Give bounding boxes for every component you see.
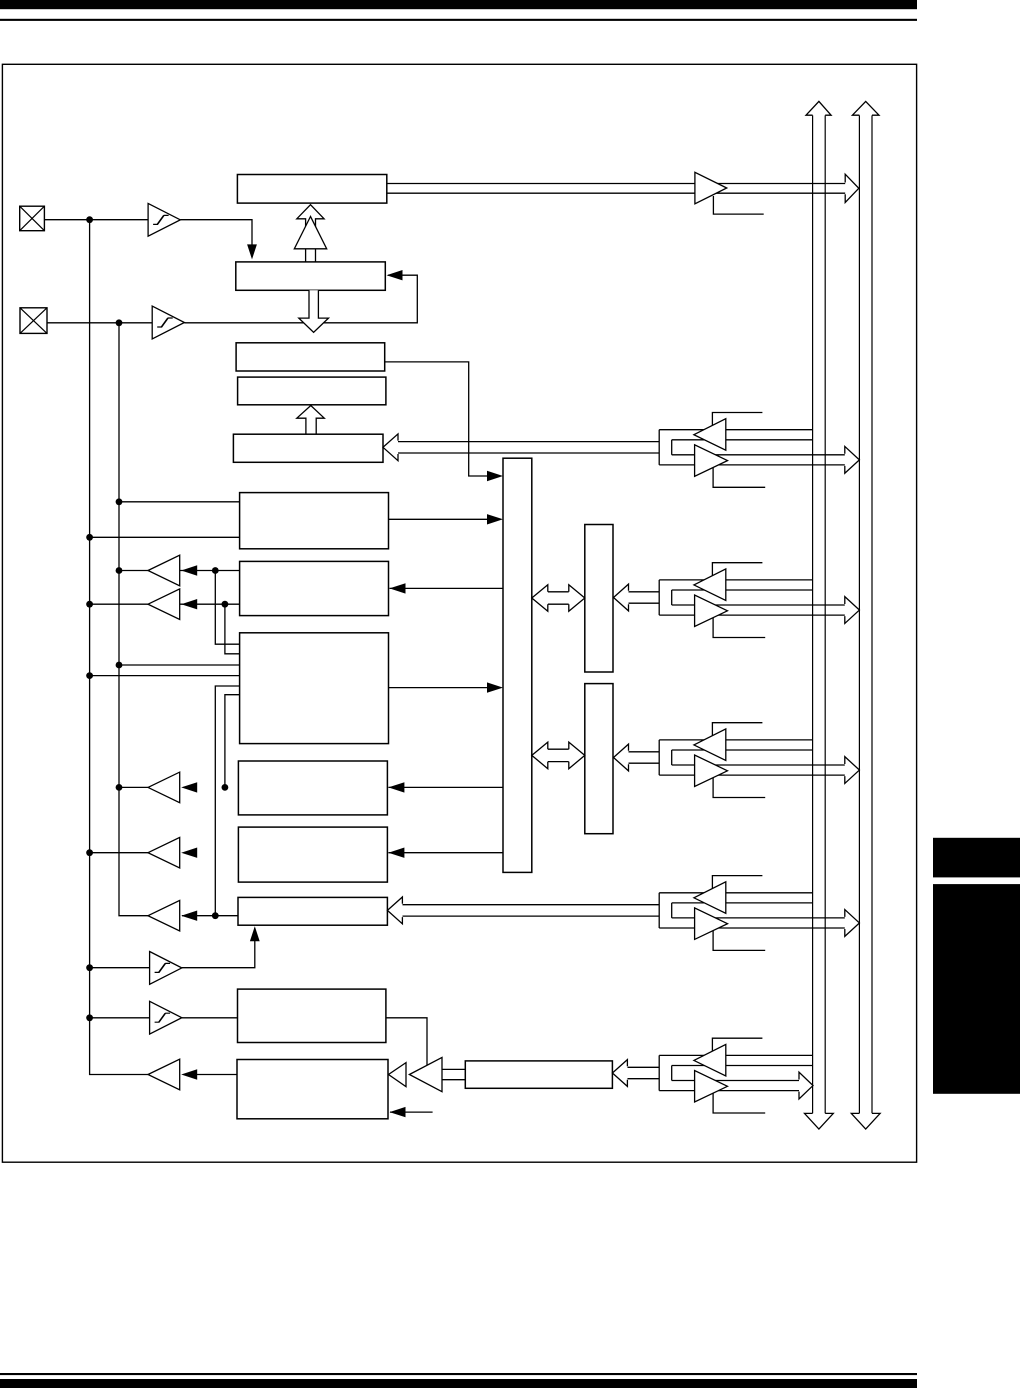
page header thick rule bbox=[0, 0, 917, 9]
wire T5 to R11 bbox=[182, 915, 238, 917]
bidirectional arrow control to buffer lower bbox=[548, 749, 569, 761]
register R13 bbox=[237, 1060, 388, 1119]
control block tall rectangle bbox=[503, 458, 532, 872]
port transceiver group 2 output buffer triangle bbox=[695, 595, 728, 627]
wire R12 to output driver enable bbox=[386, 1018, 427, 1068]
wire row B pin line bbox=[90, 603, 240, 605]
junction on rail B at XT2 bbox=[116, 319, 123, 326]
bus 1 top arrowhead bbox=[806, 101, 831, 115]
section tab black small bbox=[933, 838, 1020, 878]
port transceiver group 3 rails bbox=[659, 739, 812, 741]
register R6 bbox=[240, 493, 389, 549]
wire T3 to rail B bbox=[119, 786, 148, 788]
port transceiver group 5 output buffer triangle bbox=[695, 1071, 728, 1103]
port transceiver group 4 rails bbox=[659, 892, 812, 894]
down arrow below R2 bbox=[299, 290, 329, 332]
wire R8 down-leg outer bbox=[215, 686, 239, 916]
wire R6 to control block bbox=[389, 518, 501, 520]
junction rail A R6 bbox=[86, 534, 93, 541]
port transceiver group 3 output buffer triangle bbox=[695, 755, 728, 787]
junction rail A U4 bbox=[86, 1014, 93, 1021]
up arrow R5 to R4 bbox=[297, 406, 325, 435]
wire XT2 to buffer bbox=[47, 322, 152, 324]
pin driver triangle T2 bbox=[148, 589, 180, 620]
buffer rect lower bbox=[585, 684, 613, 834]
pin pad XT1 bbox=[20, 206, 45, 231]
port transceiver group 5 open arrow to pin bbox=[612, 1060, 627, 1087]
register R10 bbox=[238, 827, 387, 882]
port transceiver group 4 bracket bbox=[658, 893, 660, 928]
port transceiver group 3 open arrow to pin bbox=[614, 744, 629, 771]
wire R8 down-leg inner bbox=[225, 695, 240, 788]
schmitt buffer U4 bbox=[150, 1001, 182, 1034]
page footer thin rule bbox=[0, 1373, 917, 1375]
up arrow R2 to R1 bbox=[297, 205, 324, 262]
schmitt buffer U2 bbox=[152, 306, 184, 339]
wire rail A to R6 lower input bbox=[90, 536, 240, 538]
buffer rect upper bbox=[585, 525, 613, 673]
wire U2 output feedback into R2 bbox=[184, 275, 417, 323]
wire rail A to buffer U3 bbox=[90, 967, 150, 969]
junction row A drop bbox=[212, 567, 219, 574]
wire control block to R10 bbox=[388, 852, 503, 854]
wire control block to R7 bbox=[390, 587, 504, 589]
schmitt buffer U1 bbox=[148, 203, 180, 236]
junction outer drop T5 bbox=[212, 912, 219, 919]
port transceiver group 5 rails bbox=[659, 1054, 812, 1056]
port transceiver group 2 input buffer triangle bbox=[694, 569, 726, 601]
junction rail A row B bbox=[86, 601, 93, 608]
register R1 bbox=[237, 175, 386, 204]
port transceiver group 2 rails bbox=[659, 579, 812, 581]
figure border frame bbox=[2, 64, 916, 1162]
R1 open arrow onto bus 2 bbox=[845, 174, 859, 202]
junction rail A U3 bbox=[86, 964, 93, 971]
R1 output driver triangle bbox=[695, 172, 727, 204]
bus 1 vertical shaft bbox=[812, 115, 814, 1113]
port transceiver group 4 open arrow to pin bbox=[387, 897, 402, 924]
port transceiver group 2 open arrow to pin bbox=[614, 584, 629, 611]
port transceiver group 1 enable stubs bbox=[712, 413, 762, 428]
R1 driver enable stub bbox=[713, 196, 763, 214]
pin driver triangle T3 bbox=[148, 772, 180, 803]
wire U4 to R12 bbox=[182, 1017, 238, 1019]
wire XT1 to buffer bbox=[44, 219, 148, 221]
port transceiver group 5 enable stubs bbox=[712, 1038, 762, 1053]
wire row A pin line bbox=[119, 570, 240, 572]
bidirectional arrow control to buffer upper bbox=[548, 592, 569, 604]
port transceiver group 2 open arrow to data bus bbox=[845, 597, 860, 624]
page footer thick rule bbox=[0, 1379, 917, 1388]
left vertical rail B bbox=[119, 323, 148, 916]
section tab black large bbox=[933, 884, 1020, 1094]
register R2 bbox=[236, 262, 385, 290]
bus 1 bottom arrowhead bbox=[805, 1113, 834, 1129]
wire R3 to control block bbox=[385, 362, 500, 476]
junction row B drop bbox=[222, 601, 229, 608]
port transceiver group 1 open arrow to data bus bbox=[845, 446, 860, 473]
port transceiver group 3 open arrow to data bus bbox=[845, 757, 860, 784]
register R11 bbox=[238, 897, 387, 925]
register R12 bbox=[238, 989, 386, 1042]
wire row B drop into R8 bbox=[225, 604, 240, 654]
pin pad XT2 bbox=[20, 308, 47, 334]
port transceiver group 2 pin pair wires bbox=[629, 591, 660, 593]
junction rail B R6 bbox=[116, 498, 123, 505]
register R9 bbox=[238, 761, 387, 815]
page header thin rule bbox=[0, 19, 917, 21]
port transceiver group 1 bracket bbox=[658, 430, 660, 465]
output driver triangle T7 bbox=[409, 1057, 442, 1091]
junction rail A T4 bbox=[86, 849, 93, 856]
junction inner drop R9 bbox=[222, 784, 229, 791]
port transceiver group 1 pin pair wires bbox=[398, 441, 659, 443]
wire T4 to rail A bbox=[90, 852, 148, 854]
wire R8 to control block bbox=[389, 687, 501, 689]
port transceiver group 5 pin pair wires bbox=[627, 1066, 659, 1068]
port transceiver group 4 output buffer triangle bbox=[695, 908, 728, 940]
port transceiver group 4 pin pair wires bbox=[402, 904, 659, 906]
oscillator triangle bbox=[294, 217, 326, 249]
shift register box bbox=[465, 1061, 612, 1088]
wire R13 to T6 bbox=[197, 1074, 237, 1076]
junction rail B T3 bbox=[116, 784, 123, 791]
port transceiver group 1 output buffer triangle bbox=[695, 445, 728, 477]
wire row A drop into R8 bbox=[215, 571, 239, 645]
register R7 bbox=[240, 561, 389, 615]
port transceiver group 5 bracket bbox=[658, 1055, 660, 1090]
port transceiver group 5 input buffer triangle bbox=[694, 1044, 726, 1076]
port transceiver group 3 enable stubs bbox=[712, 723, 762, 738]
wire control block to R9 bbox=[388, 786, 503, 788]
junction rail B row A bbox=[116, 567, 123, 574]
port transceiver group 4 enable stubs bbox=[712, 876, 762, 891]
wire U3 to R11 bottom bbox=[182, 928, 255, 968]
left vertical rail A bbox=[90, 220, 148, 1075]
wire rail B to R8 bbox=[119, 664, 240, 666]
R1 output double line to bus bbox=[387, 183, 846, 185]
junction rail B R8 bbox=[116, 662, 123, 669]
port transceiver group 1 rails bbox=[659, 429, 812, 431]
pin driver triangle T6 bbox=[148, 1059, 180, 1090]
open arrow into R13 bbox=[389, 1063, 407, 1087]
T7 pair to shift box bbox=[442, 1068, 465, 1070]
wire U1 output to register R2 top bbox=[180, 220, 252, 257]
port transceiver group 4 input buffer triangle bbox=[694, 882, 726, 914]
junction rail A R8 bbox=[86, 672, 93, 679]
port transceiver group 3 pin pair wires bbox=[629, 751, 660, 753]
wire stub into R13 lower bbox=[390, 1111, 433, 1113]
port transceiver group 1 input buffer triangle bbox=[694, 419, 726, 451]
register R4 bbox=[238, 377, 386, 405]
register R8 bbox=[240, 633, 389, 744]
port transceiver group 2 enable stubs bbox=[712, 563, 762, 578]
pin driver triangle T4 bbox=[148, 837, 180, 868]
wire rail B to R6 upper input bbox=[119, 501, 240, 503]
bus 2 vertical shaft bbox=[858, 115, 860, 1113]
port transceiver group 4 open arrow to data bus bbox=[845, 910, 860, 937]
bus 2 top arrowhead bbox=[852, 101, 879, 115]
port transceiver group 5 open arrow to data bus bbox=[799, 1072, 813, 1099]
register R3 bbox=[236, 343, 385, 371]
wire rail A to buffer U4 bbox=[90, 1017, 150, 1019]
port transceiver group 1 open arrow to pin bbox=[383, 434, 398, 461]
bus 2 bottom arrowhead bbox=[851, 1113, 880, 1129]
port transceiver group 2 bracket bbox=[658, 580, 660, 615]
pin driver triangle T1 bbox=[148, 555, 180, 586]
pin driver triangle T5 bbox=[148, 900, 180, 931]
schmitt buffer U3 bbox=[150, 952, 182, 985]
wire rail A to R8 bbox=[90, 675, 240, 677]
junction on rail A at XT1 bbox=[86, 216, 93, 223]
port transceiver group 3 input buffer triangle bbox=[694, 729, 726, 761]
register R5 bbox=[233, 434, 383, 462]
port transceiver group 3 bracket bbox=[658, 740, 660, 775]
